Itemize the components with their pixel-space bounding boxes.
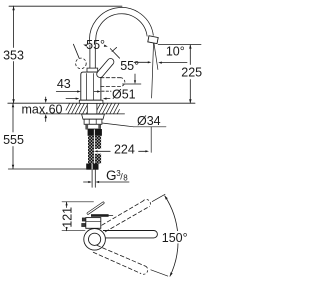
svg-text:8: 8 [123, 174, 128, 183]
upper axis extension [152, 194, 165, 201]
worktop top line [8, 102, 195, 104]
svg-text:43: 43 [57, 77, 71, 91]
dim 224 [94, 150, 98, 152]
svg-text:Ø51: Ø51 [112, 88, 136, 102]
lever bar [91, 214, 109, 217]
worktop hatching right [97, 103, 101, 110]
dim 121 [62, 201, 94, 203]
worktop bottom line [40, 113, 125, 115]
max.60 arrows [45, 97, 47, 100]
hose ferrules [86, 164, 91, 170]
lever raised position (dashed) [76, 58, 87, 69]
svg-text:55°: 55° [86, 38, 105, 52]
svg-text:224: 224 [114, 143, 135, 157]
mounting shank [86, 103, 88, 114]
pull-out spray (dashed) [101, 77, 121, 79]
svg-text:225: 225 [181, 66, 202, 80]
spout curved tube [93, 11, 151, 43]
dim arrows base flange [66, 98, 76, 100]
riser pipe [89, 45, 91, 68]
dim 150deg arc [165, 196, 178, 277]
base flange [79, 100, 103, 103]
body (plan view) [86, 218, 101, 229]
lower axis extension [151, 270, 168, 276]
dim G3/8 [84, 181, 89, 183]
svg-text:55°: 55° [120, 59, 139, 73]
braided hoses [88, 136, 94, 164]
svg-text:150°: 150° [162, 231, 188, 245]
dim 10deg [134, 61, 148, 63]
label dia 34 [102, 123, 134, 127]
swivel position lower (dashed) [97, 245, 146, 266]
svg-text:max.60: max.60 [22, 102, 63, 116]
spout tube (plan view) [103, 231, 157, 238]
hose connectors [88, 129, 94, 136]
swivel joint circles [84, 229, 106, 251]
svg-text:555: 555 [3, 133, 24, 147]
worktop hatching left [66, 103, 70, 110]
dim 225 [158, 44, 201, 46]
svg-text:121: 121 [61, 207, 75, 228]
dim 555 [12, 103, 14, 132]
body inner lines [85, 74, 87, 101]
label dia 51 [102, 90, 111, 92]
lever handle [100, 62, 111, 74]
threaded tails [91, 170, 93, 188]
faucet body [81, 72, 101, 100]
dim 353 [13, 6, 15, 47]
svg-text:G: G [106, 168, 117, 183]
reference line below counter [150, 127, 152, 153]
spout outlet aerator [148, 36, 158, 44]
svg-text:353: 353 [3, 49, 24, 63]
lever axis extension line [123, 83, 141, 85]
top extension line (spout apex) [9, 5, 122, 7]
svg-text:Ø34: Ø34 [137, 114, 161, 128]
locknut band [86, 124, 101, 129]
bottom extension line (hose end) [8, 168, 86, 170]
pipe collar [87, 68, 98, 72]
mounting nut [84, 119, 102, 124]
washer plate [82, 114, 105, 119]
swivel position upper (dashed) [102, 201, 143, 225]
dim 55deg (lever lift) [73, 44, 79, 58]
water stream 10deg line [154, 41, 158, 70]
svg-text:10°: 10° [166, 44, 185, 58]
lever (plan view) [88, 203, 103, 214]
spout tip reference line [152, 41, 154, 98]
